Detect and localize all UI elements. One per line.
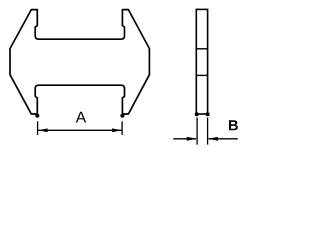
dimension B right arrowhead <box>208 137 218 141</box>
dimension A label <box>76 112 86 123</box>
dimension B right leader line <box>209 138 238 140</box>
dimension B right extension line <box>207 118 209 145</box>
side view left datum dot <box>195 112 199 116</box>
front view right datum dot <box>120 114 124 118</box>
front view left datum dot <box>35 114 39 118</box>
front view profile outline <box>10 10 149 114</box>
dimension A line <box>38 129 121 131</box>
side view right datum dot <box>206 112 210 116</box>
dimension B left leader line <box>173 138 196 140</box>
dimension B left arrowhead <box>187 137 197 141</box>
side view lower tick line <box>196 74 207 76</box>
dimension A left arrowhead <box>38 128 47 132</box>
dimension A left extension line <box>37 121 39 135</box>
side view outline <box>196 9 207 114</box>
dimension A right arrowhead <box>112 128 121 132</box>
side view upper tick line <box>196 48 207 50</box>
dimension B left extension line <box>196 118 198 145</box>
dimension B label <box>229 120 238 130</box>
dimension A right extension line <box>121 121 123 135</box>
